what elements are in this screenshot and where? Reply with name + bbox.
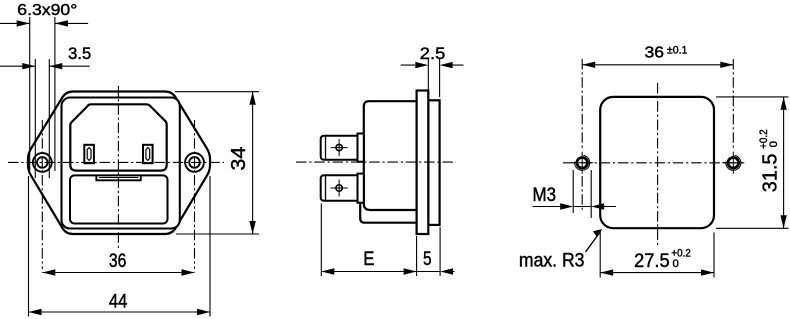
svg-text:36: 36: [109, 250, 127, 272]
svg-text:31.5: 31.5: [760, 154, 782, 193]
svg-text:34: 34: [228, 147, 250, 171]
svg-text:E: E: [363, 249, 374, 270]
svg-text:6.3x90°: 6.3x90°: [17, 2, 77, 19]
svg-text:3.5: 3.5: [68, 45, 91, 63]
svg-text:36: 36: [645, 45, 665, 62]
svg-text:0: 0: [673, 258, 679, 270]
svg-text:±0.1: ±0.1: [667, 45, 688, 57]
svg-text:2.5: 2.5: [420, 45, 446, 63]
svg-text:0: 0: [768, 141, 780, 147]
svg-text:max. R3: max. R3: [519, 251, 585, 272]
svg-text:5: 5: [423, 249, 432, 270]
svg-text:27.5: 27.5: [634, 251, 670, 272]
svg-text:44: 44: [109, 292, 128, 313]
svg-text:M3: M3: [533, 185, 557, 206]
